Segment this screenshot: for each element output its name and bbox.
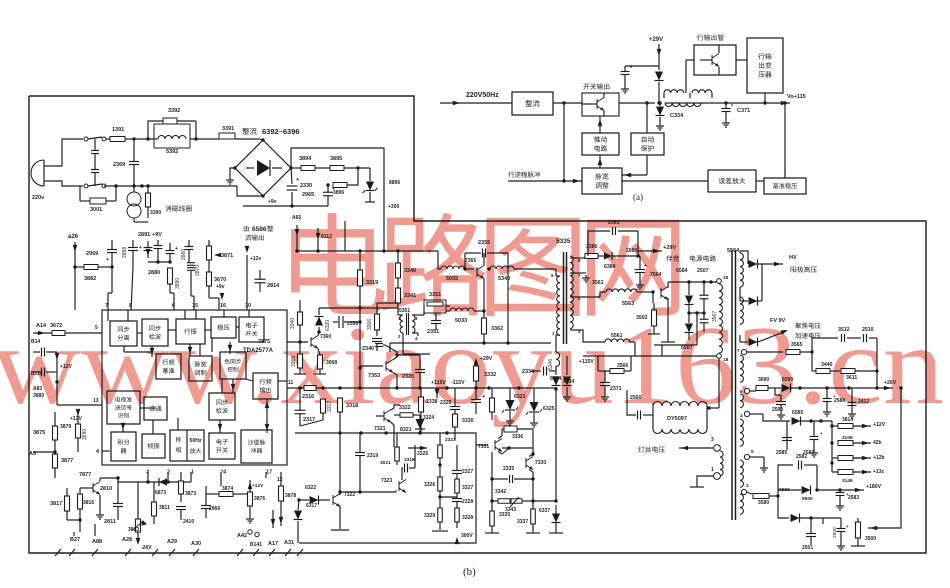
svg-text:-115V: -115V bbox=[451, 380, 465, 386]
svg-text:C334: C334 bbox=[670, 113, 684, 119]
svg-text:2582: 2582 bbox=[796, 454, 807, 460]
svg-text:+29V: +29V bbox=[480, 356, 493, 362]
svg-text:6590: 6590 bbox=[782, 377, 793, 383]
svg-text:2965: 2965 bbox=[302, 192, 314, 198]
svg-text:A83: A83 bbox=[33, 386, 42, 392]
svg-text:2500: 2500 bbox=[832, 527, 838, 538]
svg-text:2560: 2560 bbox=[630, 395, 642, 401]
svg-text:+9V: +9V bbox=[152, 232, 162, 238]
svg-text:3871: 3871 bbox=[221, 253, 233, 259]
svg-text:A65: A65 bbox=[292, 215, 301, 221]
svg-text:A31: A31 bbox=[284, 540, 294, 546]
svg-text:2585: 2585 bbox=[776, 450, 787, 456]
svg-text:5033: 5033 bbox=[455, 318, 467, 324]
svg-text:5351: 5351 bbox=[399, 308, 410, 314]
svg-text:3391: 3391 bbox=[222, 126, 234, 132]
svg-text:2583: 2583 bbox=[848, 495, 859, 501]
svg-text:3876: 3876 bbox=[254, 496, 265, 502]
svg-text:7365: 7365 bbox=[465, 258, 476, 264]
svg-text:2328: 2328 bbox=[462, 499, 473, 505]
svg-text:2320: 2320 bbox=[402, 374, 414, 380]
svg-text:17: 17 bbox=[266, 470, 272, 476]
svg-text:3814: 3814 bbox=[842, 417, 853, 423]
svg-text:3567: 3567 bbox=[712, 311, 718, 322]
svg-text:3874: 3874 bbox=[222, 486, 233, 492]
svg-text:B27: B27 bbox=[70, 537, 80, 543]
svg-text:+12V: +12V bbox=[873, 422, 886, 428]
svg-text:6584: 6584 bbox=[676, 268, 688, 274]
svg-text:8896: 8896 bbox=[389, 180, 400, 186]
svg-text:3340: 3340 bbox=[404, 268, 416, 274]
svg-text:15: 15 bbox=[723, 275, 729, 281]
svg-text:3877: 3877 bbox=[61, 458, 73, 464]
svg-text:C371: C371 bbox=[737, 108, 750, 114]
svg-text:7322: 7322 bbox=[344, 492, 355, 498]
svg-text:2369: 2369 bbox=[113, 162, 125, 168]
svg-text:3500: 3500 bbox=[865, 536, 876, 542]
svg-text:3068: 3068 bbox=[326, 360, 337, 366]
svg-text:3362: 3362 bbox=[491, 326, 503, 332]
svg-text:7330: 7330 bbox=[535, 460, 546, 466]
svg-text:3873: 3873 bbox=[185, 491, 196, 497]
svg-text:-26V: -26V bbox=[141, 545, 152, 551]
svg-text:3317: 3317 bbox=[327, 401, 333, 412]
svg-text:4: 4 bbox=[740, 413, 743, 419]
svg-text:+12V: +12V bbox=[60, 364, 72, 370]
svg-text:3512: 3512 bbox=[838, 327, 850, 333]
svg-text:3392: 3392 bbox=[168, 108, 180, 114]
svg-text:3342: 3342 bbox=[495, 489, 506, 495]
svg-text:3326: 3326 bbox=[424, 482, 435, 488]
svg-text:8321: 8321 bbox=[400, 427, 412, 433]
svg-text:3895: 3895 bbox=[330, 156, 342, 162]
svg-text:3440: 3440 bbox=[821, 362, 833, 368]
svg-text:+: + bbox=[106, 257, 109, 263]
svg-text:FV 9V: FV 9V bbox=[770, 318, 786, 324]
svg-text:3365: 3365 bbox=[291, 356, 297, 367]
svg-text:2588: 2588 bbox=[834, 398, 845, 404]
svg-text:5561: 5561 bbox=[611, 333, 623, 339]
svg-text:+29V: +29V bbox=[663, 245, 676, 251]
svg-text:3335: 3335 bbox=[499, 512, 510, 518]
svg-text:7323: 7323 bbox=[381, 478, 392, 484]
svg-text:3336: 3336 bbox=[512, 434, 523, 440]
svg-text:2510: 2510 bbox=[862, 327, 874, 333]
svg-text:3894: 3894 bbox=[299, 156, 312, 162]
svg-text:+12v: +12v bbox=[250, 256, 261, 262]
svg-text:2507: 2507 bbox=[697, 268, 709, 274]
svg-text:2814: 2814 bbox=[267, 283, 280, 289]
svg-text:3878: 3878 bbox=[285, 493, 296, 499]
svg-text:3816: 3816 bbox=[83, 500, 94, 506]
svg-text:3329: 3329 bbox=[424, 513, 435, 519]
svg-text:2590: 2590 bbox=[772, 407, 783, 413]
svg-text:2340: 2340 bbox=[362, 346, 374, 352]
svg-text:HV: HV bbox=[789, 255, 797, 261]
svg-text:B116: B116 bbox=[31, 371, 43, 377]
svg-text:2080: 2080 bbox=[626, 248, 637, 254]
svg-text:3328: 3328 bbox=[462, 515, 473, 521]
svg-text:2334: 2334 bbox=[522, 369, 535, 375]
svg-text:B141: B141 bbox=[250, 542, 262, 548]
svg-text:6337: 6337 bbox=[539, 508, 550, 514]
svg-text:6380: 6380 bbox=[604, 264, 616, 270]
svg-text:3879: 3879 bbox=[60, 424, 71, 430]
svg-text:3566: 3566 bbox=[617, 363, 628, 369]
svg-text:A28: A28 bbox=[122, 537, 132, 543]
svg-text:+13c: +13c bbox=[873, 469, 884, 475]
svg-text:2351: 2351 bbox=[427, 329, 439, 335]
svg-text:220V50Hz: 220V50Hz bbox=[466, 92, 499, 99]
svg-text:3325: 3325 bbox=[417, 451, 428, 457]
svg-text:2335: 2335 bbox=[503, 466, 514, 472]
svg-text:15: 15 bbox=[192, 303, 198, 309]
svg-text:A17: A17 bbox=[268, 541, 278, 547]
svg-text:Vo+115: Vo+115 bbox=[787, 94, 806, 100]
svg-text:*: * bbox=[630, 66, 632, 72]
svg-text:2318: 2318 bbox=[404, 457, 415, 463]
svg-text:3611: 3611 bbox=[846, 375, 857, 381]
svg-text:2880: 2880 bbox=[148, 270, 160, 276]
svg-text:3318: 3318 bbox=[346, 403, 358, 409]
svg-text:3890: 3890 bbox=[175, 278, 181, 289]
svg-text:7877: 7877 bbox=[79, 472, 91, 478]
svg-text:6322: 6322 bbox=[305, 485, 316, 491]
svg-text:6325: 6325 bbox=[543, 406, 555, 412]
svg-text:2810: 2810 bbox=[100, 486, 112, 492]
svg-text:3: 3 bbox=[711, 437, 714, 443]
svg-text:(b): (b) bbox=[463, 566, 476, 578]
svg-text:3690: 3690 bbox=[82, 429, 88, 440]
svg-text:3337: 3337 bbox=[517, 519, 528, 525]
svg-text:*: * bbox=[731, 104, 733, 110]
svg-text:6873: 6873 bbox=[155, 490, 166, 496]
svg-text:2860: 2860 bbox=[181, 249, 187, 260]
svg-text:16: 16 bbox=[220, 303, 226, 309]
svg-text:6323: 6323 bbox=[514, 394, 526, 400]
svg-text:3811: 3811 bbox=[159, 505, 170, 511]
svg-text:2501: 2501 bbox=[802, 545, 813, 551]
svg-text:5: 5 bbox=[95, 325, 98, 331]
svg-text:7564: 7564 bbox=[650, 272, 662, 278]
svg-text:+29V: +29V bbox=[649, 37, 663, 43]
svg-text:3324: 3324 bbox=[423, 415, 434, 421]
svg-text:2355: 2355 bbox=[478, 240, 490, 246]
svg-text:+9v: +9v bbox=[216, 284, 225, 290]
svg-text:18: 18 bbox=[723, 357, 729, 363]
svg-text:A30: A30 bbox=[191, 541, 201, 547]
svg-text:3149: 3149 bbox=[842, 478, 853, 484]
svg-text:2325: 2325 bbox=[440, 400, 452, 406]
svg-text:220v: 220v bbox=[32, 195, 45, 201]
svg-text:6: 6 bbox=[740, 389, 743, 395]
svg-text:50Hz: 50Hz bbox=[189, 438, 202, 444]
svg-text:5392: 5392 bbox=[166, 149, 178, 155]
svg-text:2330: 2330 bbox=[300, 183, 312, 189]
svg-text:3351: 3351 bbox=[429, 292, 441, 298]
svg-text:A14: A14 bbox=[36, 323, 47, 329]
svg-text:+9v: +9v bbox=[268, 199, 277, 205]
svg-text:3327: 3327 bbox=[462, 485, 473, 491]
svg-text:13: 13 bbox=[93, 398, 99, 404]
svg-text:A29: A29 bbox=[167, 539, 177, 545]
svg-text:A88: A88 bbox=[92, 539, 102, 545]
svg-text:7353: 7353 bbox=[368, 373, 380, 379]
svg-text:3322: 3322 bbox=[399, 405, 411, 411]
svg-text:6392–6396: 6392–6396 bbox=[262, 127, 300, 136]
svg-text:2888: 2888 bbox=[122, 247, 128, 258]
svg-text:3896: 3896 bbox=[333, 190, 344, 196]
svg-text:B14: B14 bbox=[31, 339, 40, 345]
svg-text:3390: 3390 bbox=[150, 210, 161, 216]
svg-text:+180V: +180V bbox=[866, 484, 882, 490]
svg-text:2870: 2870 bbox=[195, 265, 201, 276]
svg-text:2891: 2891 bbox=[138, 232, 150, 238]
svg-text:6320: 6320 bbox=[325, 320, 331, 331]
svg-text:2412: 2412 bbox=[858, 399, 869, 405]
svg-text:+: + bbox=[846, 524, 849, 529]
svg-text:2410: 2410 bbox=[183, 519, 194, 525]
svg-text:+: + bbox=[482, 394, 485, 400]
svg-text:3356: 3356 bbox=[367, 319, 373, 330]
svg-text:3580: 3580 bbox=[758, 500, 769, 506]
svg-text:2: 2 bbox=[746, 483, 749, 489]
svg-text:12: 12 bbox=[277, 477, 283, 483]
svg-text:2811: 2811 bbox=[104, 519, 116, 525]
svg-text:+: + bbox=[296, 177, 299, 183]
svg-text:11: 11 bbox=[288, 380, 294, 386]
svg-text:2969: 2969 bbox=[86, 251, 98, 257]
svg-text:7360: 7360 bbox=[320, 334, 331, 340]
svg-text:+300: +300 bbox=[388, 204, 399, 210]
svg-text:300V: 300V bbox=[461, 533, 473, 539]
svg-text:5563: 5563 bbox=[622, 301, 634, 307]
svg-text:+12V: +12V bbox=[252, 483, 264, 489]
svg-text:+12b: +12b bbox=[873, 455, 885, 461]
svg-text:3340: 3340 bbox=[290, 318, 296, 329]
svg-text:10: 10 bbox=[245, 303, 251, 309]
svg-text:2361: 2361 bbox=[608, 220, 620, 226]
svg-text:TDA2577A: TDA2577A bbox=[243, 348, 274, 354]
svg-text:6317: 6317 bbox=[306, 503, 317, 509]
svg-text:7321: 7321 bbox=[374, 426, 386, 432]
svg-text:3330: 3330 bbox=[462, 418, 474, 424]
svg-text:3690: 3690 bbox=[758, 377, 769, 383]
svg-text:3882: 3882 bbox=[84, 276, 96, 282]
svg-text:6507: 6507 bbox=[681, 345, 693, 351]
svg-text:a26: a26 bbox=[68, 234, 79, 240]
svg-text:3880: 3880 bbox=[33, 393, 44, 399]
svg-text:1391: 1391 bbox=[112, 127, 124, 133]
svg-text:5564: 5564 bbox=[727, 248, 740, 254]
svg-text:2338: 2338 bbox=[426, 399, 438, 405]
svg-text:6500: 6500 bbox=[802, 496, 813, 502]
svg-text:6334: 6334 bbox=[550, 376, 561, 382]
svg-text:2316: 2316 bbox=[302, 394, 314, 400]
svg-text:3341: 3341 bbox=[404, 293, 416, 299]
svg-text:2319: 2319 bbox=[367, 453, 378, 459]
svg-text:3332: 3332 bbox=[484, 372, 496, 378]
svg-text:+: + bbox=[820, 431, 823, 436]
svg-text:+: + bbox=[175, 246, 178, 252]
svg-text:3875: 3875 bbox=[33, 430, 45, 436]
svg-text:2966: 2966 bbox=[209, 506, 220, 512]
svg-text:6585: 6585 bbox=[792, 410, 803, 416]
svg-text:7875: 7875 bbox=[258, 339, 270, 345]
svg-text:A42: A42 bbox=[237, 533, 247, 539]
svg-text:3021: 3021 bbox=[380, 460, 391, 466]
svg-text:3565: 3565 bbox=[791, 342, 803, 348]
svg-text:+115V: +115V bbox=[579, 359, 594, 365]
svg-text:3319: 3319 bbox=[366, 280, 378, 286]
svg-text:6586: 6586 bbox=[252, 226, 267, 233]
svg-text:DY5097: DY5097 bbox=[667, 416, 687, 422]
svg-text:7: 7 bbox=[737, 348, 740, 354]
svg-text:+12V: +12V bbox=[70, 416, 82, 422]
svg-text:5335: 5335 bbox=[556, 238, 571, 245]
svg-text:2327: 2327 bbox=[462, 469, 473, 475]
svg-text:(a): (a) bbox=[633, 192, 643, 202]
svg-text:5: 5 bbox=[751, 449, 754, 455]
svg-text:3670: 3670 bbox=[214, 277, 226, 283]
svg-text:3817: 3817 bbox=[50, 501, 62, 507]
svg-text:1: 1 bbox=[711, 467, 714, 473]
svg-text:+115V: +115V bbox=[431, 380, 446, 386]
svg-text:5055: 5055 bbox=[446, 276, 458, 282]
svg-text:2323: 2323 bbox=[445, 437, 456, 443]
svg-text:3502: 3502 bbox=[636, 315, 648, 321]
svg-text:3561: 3561 bbox=[592, 280, 604, 286]
svg-text:+: + bbox=[139, 245, 142, 251]
svg-text:+26V: +26V bbox=[884, 380, 897, 386]
svg-text:42b: 42b bbox=[873, 440, 882, 446]
svg-text:2371: 2371 bbox=[610, 386, 622, 392]
svg-text:5346: 5346 bbox=[548, 359, 554, 370]
svg-text:3672: 3672 bbox=[50, 323, 62, 329]
svg-text:3001: 3001 bbox=[90, 207, 102, 213]
svg-text:8112: 8112 bbox=[321, 234, 332, 240]
svg-text:+: + bbox=[644, 263, 647, 269]
svg-text:3108: 3108 bbox=[842, 435, 853, 441]
